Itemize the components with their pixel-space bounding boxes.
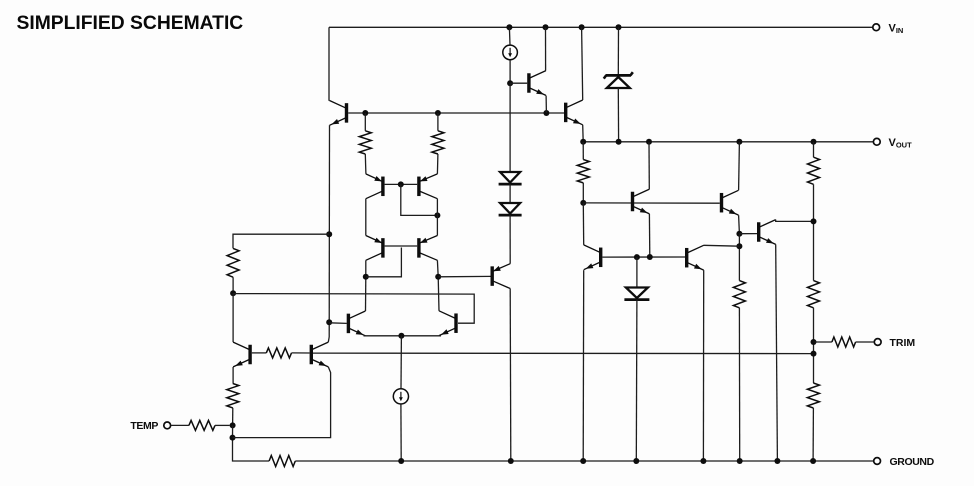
wire bottom-bases link — [366, 248, 402, 277]
transistor Q8 — [566, 100, 583, 125]
wire Q8 collector riser — [582, 27, 583, 100]
junction left-column node — [230, 290, 236, 296]
resistor R13 temp — [189, 420, 215, 430]
wire V_OUT rail — [583, 141, 873, 143]
wire R5 to Q3 — [292, 352, 310, 354]
resistor R8 — [808, 157, 820, 184]
wire QD collector drop — [436, 260, 439, 277]
transistor T2 — [722, 190, 739, 215]
resistor R5 — [266, 348, 291, 358]
wire y234 crossover — [233, 234, 329, 248]
junction base-bus/Q6e — [543, 110, 549, 116]
wire T1T2 base bus — [583, 202, 720, 204]
transistor Q5 — [439, 311, 456, 336]
wire Q4 emitter bus — [364, 335, 402, 337]
diode D3 feed — [636, 257, 638, 287]
wire Q7 collector drop — [509, 289, 512, 462]
resistor R1 — [227, 248, 239, 277]
junction TEMP node — [230, 422, 236, 428]
svg-text:GROUND: GROUND — [890, 456, 935, 468]
junction I1/Q6 base — [507, 80, 513, 86]
transistor Q4 — [348, 311, 365, 336]
wire TRIM stub right — [856, 341, 875, 343]
wire R1 to node — [232, 277, 234, 293]
junction R10/ground — [810, 458, 816, 464]
junction VOUT/T1c — [646, 139, 652, 145]
junction VIN/Q6c — [543, 24, 549, 30]
junction VOUT/zener — [616, 139, 622, 145]
resistor R11 trim — [832, 337, 856, 347]
resistor R12 ground series — [269, 456, 295, 467]
title — [17, 13, 244, 34]
wire quad to Q5 collector — [437, 277, 440, 311]
resistor R3 — [432, 131, 444, 154]
label TEMP — [130, 420, 158, 432]
wire column to Q3 collector — [327, 337, 330, 342]
junction Q10c node — [736, 243, 742, 249]
wire R9 to TRIM — [813, 308, 815, 383]
junction x329/diffbase — [326, 319, 332, 325]
junction VOUT/T2c — [736, 139, 742, 145]
terminal GROUND — [874, 458, 881, 465]
label VIN — [889, 22, 904, 35]
resistor R7 — [733, 281, 745, 308]
svg-text:SIMPLIFIED SCHEMATIC: SIMPLIFIED SCHEMATIC — [17, 13, 244, 34]
wire T3 base — [739, 233, 757, 235]
transistor QB — [419, 174, 438, 199]
wire R8-R9 — [813, 184, 815, 280]
terminal VOUT — [873, 138, 880, 145]
transistor Q7 — [492, 264, 510, 289]
junction VIN/Q8c — [579, 24, 585, 30]
svg-text:TEMP: TEMP — [130, 420, 158, 432]
junction x366/y277 — [363, 274, 369, 280]
junction Q10e/ground — [700, 458, 706, 464]
junction R4/base node — [580, 200, 586, 206]
label TRIM — [890, 337, 916, 349]
wire T3 emitter drop — [776, 244, 778, 461]
wire R4 to node — [582, 183, 584, 203]
wire R3 to QB — [436, 154, 439, 174]
wire zener bottom — [617, 88, 619, 142]
wire I1 out — [509, 60, 511, 83]
wire TEMP stub — [171, 424, 189, 426]
transistor Q6 — [529, 71, 546, 96]
wire Q7 base — [438, 275, 490, 277]
wire R3 feed — [437, 113, 439, 131]
wire Q2 emitter drop — [232, 367, 234, 384]
resistor R2 — [359, 131, 371, 154]
wire Q9 emitter drop — [582, 270, 585, 461]
junction x437/y215 — [434, 212, 440, 218]
wire T2 emitter drop — [738, 215, 741, 234]
junction T3e/ground — [774, 458, 780, 464]
wire Q8 emitter drop — [582, 125, 585, 142]
junction base/D3 — [634, 254, 640, 260]
transistor T1 — [633, 189, 650, 214]
junction VOUT/R8 — [811, 139, 817, 145]
label VOUT — [889, 137, 913, 150]
wire feedback y294 — [233, 294, 474, 324]
wire TRIM stub left — [814, 341, 832, 343]
wire T1 emitter drop — [648, 214, 650, 257]
junction Q9e/ground — [580, 458, 586, 464]
junction VIN/I1 — [506, 24, 512, 30]
junction R8/T3c — [811, 218, 817, 224]
svg-text:TRIM: TRIM — [890, 337, 916, 349]
diode D2 — [499, 203, 522, 215]
wire QC collector drop — [365, 260, 367, 277]
junction VOUT/Q8e — [580, 139, 586, 145]
wire V_IN rail — [329, 26, 873, 28]
wire R10 to ground — [812, 408, 814, 461]
wire diode column — [509, 83, 511, 172]
wire Q6 emitter drop — [545, 96, 547, 114]
wire T3 collector link — [776, 220, 814, 222]
wire R8 feed — [813, 142, 815, 157]
wire QA-QB bases — [385, 183, 418, 185]
wire Q6 base — [510, 82, 527, 84]
wire left column to Q2 — [232, 293, 234, 342]
resistor R10 — [807, 383, 819, 408]
wire D3 to ground — [635, 300, 638, 462]
junction base-bus/R2 — [362, 110, 368, 116]
wire Q1 emitter column — [328, 125, 330, 337]
wire I2 to ground — [400, 404, 402, 461]
wire Q3 emitter return — [233, 367, 331, 438]
wire QA collector column — [365, 199, 367, 236]
wire TEMP node drop — [232, 425, 234, 437]
transistor Q10 — [687, 245, 704, 270]
junction y353 node — [811, 351, 817, 357]
wire Q6 collector riser — [545, 27, 547, 70]
transistor QC — [366, 236, 383, 261]
junction TRIM node — [811, 339, 817, 345]
terminal TEMP — [164, 422, 171, 429]
transistor QA — [366, 174, 383, 199]
wire T3 node column — [738, 234, 740, 281]
wire R13 to node — [215, 424, 230, 426]
wire quad to Q4 collector — [365, 277, 367, 311]
wire ground rail left segment — [233, 438, 270, 461]
wire QC-QD bases — [385, 245, 418, 247]
transistor Q1 — [330, 101, 347, 126]
junction I2/ground — [398, 458, 404, 464]
transistor Q2 — [233, 342, 250, 367]
terminal VIN — [873, 24, 880, 31]
wire zener top — [617, 27, 619, 75]
junction quad top bases — [398, 181, 404, 187]
wire D1-D2 — [509, 184, 511, 203]
junction D3/ground — [633, 458, 639, 464]
wire R6 to TEMP node — [232, 408, 234, 426]
resistor R6 — [227, 384, 239, 408]
wire R4 feed — [582, 142, 584, 160]
resistor R9 — [808, 281, 820, 308]
diode D3 — [624, 288, 649, 300]
transistor T3 — [759, 220, 776, 245]
wire QB collector column — [436, 199, 438, 216]
junction x329/y234 — [326, 231, 332, 237]
transistor QD — [419, 236, 438, 261]
junction VIN/zener — [616, 24, 622, 30]
wire Q10 collector link — [704, 244, 740, 247]
wire Q2 base stub — [252, 352, 266, 354]
junction R7/ground — [737, 458, 743, 464]
wire T1 collector riser — [648, 142, 650, 189]
wire top-bases link — [401, 184, 438, 215]
junction x438/y277 — [435, 274, 441, 280]
wire D2 to Q7 — [509, 215, 511, 264]
junction base/T1e — [647, 254, 653, 260]
junction T3 base node — [736, 231, 742, 237]
wire Q9Q10 base bus — [602, 256, 685, 258]
wire R2 to QA — [364, 154, 367, 174]
label GROUND — [890, 456, 935, 468]
current source I2 — [393, 389, 408, 404]
wire ground rail — [295, 460, 873, 462]
resistor R4 — [577, 160, 589, 183]
wire diff left base — [329, 322, 347, 325]
wire R7 to ground — [738, 308, 740, 461]
transistor Q3 — [311, 342, 328, 367]
terminal TRIM — [874, 339, 881, 346]
junction base-bus/R3 — [435, 110, 441, 116]
wire QD emitter feed — [436, 215, 438, 235]
junction diff emitters — [398, 333, 404, 339]
transistor Q9 — [584, 245, 601, 270]
wire Q10 emitter drop — [702, 270, 704, 461]
wire Q5 emitter bus — [401, 335, 441, 337]
junction TEMP lower node — [230, 435, 236, 441]
diode D1 — [499, 172, 522, 184]
zener diode DZ — [604, 72, 633, 88]
junction Q7/ground — [508, 458, 514, 464]
node Q1 base bus — [348, 112, 564, 114]
wire VIN left drop — [328, 27, 330, 101]
current source I1 — [503, 45, 518, 60]
wire I1 feed — [508, 27, 511, 45]
wire T2 collector riser — [738, 142, 741, 191]
wire long base line y353 — [313, 352, 814, 355]
wire R2 feed — [364, 113, 366, 131]
wire Q9 collector feed — [582, 203, 584, 245]
wire tail drop — [400, 336, 402, 389]
